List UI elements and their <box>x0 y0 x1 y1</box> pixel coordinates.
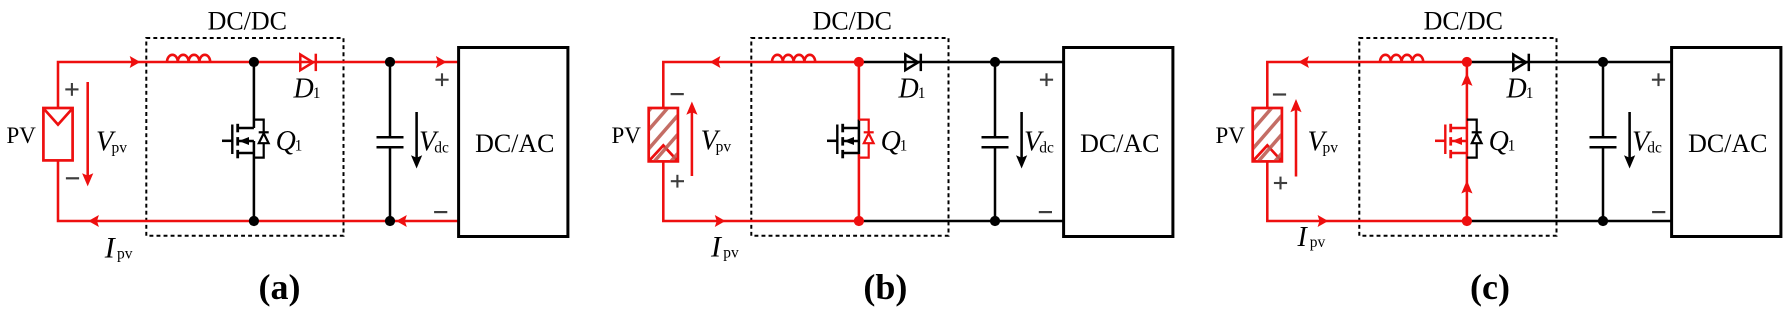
Q1 body arrowhead (a) <box>239 137 249 145</box>
Q1 source connection (c) <box>1451 152 1467 155</box>
wire: bottom rail PV lead to Q1 node (b), red <box>663 162 859 222</box>
svg-text:1: 1 <box>918 85 926 102</box>
svg-text:pv: pv <box>723 245 739 262</box>
Q1 gate lead (b) <box>827 140 837 143</box>
junction node Q1 top (a) <box>249 57 259 67</box>
svg-text:dc: dc <box>1647 140 1662 157</box>
svg-text:Q: Q <box>881 126 901 157</box>
current arrow top rail pointing left toward PV (c) <box>1298 56 1309 68</box>
Vpv arrow pointing up (c) <box>1295 108 1298 177</box>
wire: top rail PV lead to Q1 node (b), red <box>663 62 859 107</box>
Vdc arrow pointing down (c) <box>1628 112 1631 158</box>
minus sign at DC/AC input (b) <box>1039 211 1052 213</box>
plus sign at DC/AC input (a) <box>435 73 448 86</box>
transistor Q1 MOSFET (a): drain lead <box>253 62 256 128</box>
svg-text:D: D <box>898 74 919 105</box>
capacitor C (c) <box>1590 62 1617 221</box>
plus sign at PV bottom (b) <box>671 175 684 188</box>
wire: top rail PV lead to Q1 node (c), red <box>1267 62 1467 107</box>
transistor Q1 MOSFET (b): drain lead <box>858 62 861 121</box>
svg-text:Q: Q <box>1489 126 1509 157</box>
svg-text:DC/DC: DC/DC <box>208 7 287 36</box>
diode D1 (c) <box>1513 54 1529 71</box>
svg-text:1: 1 <box>900 137 908 154</box>
DC/DC converter dashed box (b) <box>751 38 948 236</box>
Q1 source connection (b) <box>843 152 859 155</box>
Q1 gate bar (c) <box>1444 125 1446 155</box>
junction node Q1 top (c) <box>1462 57 1472 67</box>
Q1 gate bar (a) <box>231 125 233 155</box>
Q1 drain connection (a) <box>238 127 254 130</box>
svg-text:pv: pv <box>1323 140 1339 157</box>
Q1 gate lead (a) <box>222 140 232 143</box>
svg-text:pv: pv <box>117 246 133 263</box>
current arrow bottom rail pointing left near PV (a) <box>88 215 99 227</box>
junction node C top (c) <box>1598 57 1608 67</box>
Q1 body arrow line (a) <box>238 140 254 143</box>
current arrow upward below Q1 (c) <box>1461 180 1472 193</box>
minus sign at DC/AC input (a) <box>434 211 447 213</box>
wire: bottom rail PV lead to DC/AC (a), red <box>58 162 459 222</box>
svg-text:(a): (a) <box>259 267 301 307</box>
Q1 source lead (a) <box>253 141 256 221</box>
junction node C top (a) <box>385 57 395 67</box>
Q1 gate bar (b) <box>836 125 838 155</box>
Q1 drain connection (b) <box>843 127 859 130</box>
svg-text:1: 1 <box>313 85 321 102</box>
diode D1 (b) <box>905 54 921 71</box>
svg-text:DC/DC: DC/DC <box>1424 7 1503 36</box>
svg-text:PV: PV <box>7 123 37 148</box>
minus sign at DC/AC input (c) <box>1652 211 1665 213</box>
svg-text:DC/AC: DC/AC <box>475 129 554 158</box>
PV panel symbol (a) <box>43 108 72 160</box>
junction node Q1 bottom (a) <box>249 216 259 226</box>
svg-text:pv: pv <box>716 139 732 156</box>
minus sign at PV bottom (a) <box>66 177 79 179</box>
svg-text:pv: pv <box>1310 234 1326 251</box>
Q1 source connection (a) <box>238 152 254 155</box>
Q1 channel bar segments (c) <box>1449 124 1452 159</box>
diode D1 (a) <box>300 54 316 71</box>
DC/AC inverter block (b) <box>1064 48 1173 237</box>
junction node Q1 top (b) <box>854 57 864 67</box>
junction node C bottom (c) <box>1598 216 1608 226</box>
Vpv arrow pointing up (b) <box>691 111 694 177</box>
Vdc arrow pointing down (a) <box>415 112 418 158</box>
Q1 body diode branch (a) <box>254 120 269 158</box>
inductor L (c) <box>1380 55 1423 62</box>
inductor L (a) <box>167 55 210 62</box>
PV panel symbol (b) <box>649 108 678 161</box>
plus sign at PV bottom (c) <box>1274 177 1287 190</box>
svg-text:DC/AC: DC/AC <box>1688 129 1767 158</box>
svg-text:D: D <box>293 74 314 105</box>
minus sign at PV top (c) <box>1273 93 1286 95</box>
junction node C top (b) <box>990 57 1000 67</box>
plus sign at DC/AC input (c) <box>1652 73 1665 86</box>
svg-text:1: 1 <box>295 137 303 154</box>
svg-text:pv: pv <box>112 140 128 157</box>
Q1 body arrow line (c) <box>1451 140 1467 143</box>
Q1 body arrowhead (b) <box>844 137 854 145</box>
svg-text:1: 1 <box>1526 85 1534 102</box>
inductor L (b) <box>772 55 815 62</box>
Q1 mid vertical bracket (b) <box>858 120 861 154</box>
wire: bottom rail Q1 node to DC/AC (b), black <box>859 220 1064 223</box>
svg-text:PV: PV <box>612 123 642 148</box>
current arrow upward below top node (c) <box>1461 73 1472 86</box>
svg-text:Q: Q <box>276 126 296 157</box>
Q1 body arrowhead (c) <box>1452 137 1462 145</box>
current arrow top rail pointing left toward PV (b) <box>710 56 721 68</box>
Vpv arrow pointing down (a) <box>86 82 89 176</box>
DC/AC inverter block (c) <box>1672 48 1781 237</box>
wire: top rail Q1 node to DC/AC (b), black <box>859 61 1064 64</box>
wire: top rail Q1 node to DC/AC (c), black <box>1467 61 1672 64</box>
svg-text:dc: dc <box>434 140 449 157</box>
Q1 drain connection (c) <box>1451 127 1467 130</box>
plus sign at DC/AC input (b) <box>1040 73 1053 86</box>
wire: bottom rail Q1 node to DC/AC (c), black <box>1467 220 1672 223</box>
Q1 body diode branch (c) <box>1467 120 1482 158</box>
svg-text:I: I <box>1297 222 1309 253</box>
svg-text:D: D <box>1506 74 1527 105</box>
DC/DC converter dashed box (c) <box>1359 38 1556 236</box>
Q1 body arrow line (b) <box>843 140 859 143</box>
Q1 gate lead (c) <box>1435 140 1445 143</box>
capacitor C (b) <box>982 62 1009 221</box>
transistor Q1 MOSFET (c): drain-source vertical <box>1466 62 1469 221</box>
plus sign at PV top (a) <box>65 83 78 96</box>
svg-text:(c): (c) <box>1470 267 1510 307</box>
junction node Q1 bottom (b) <box>854 216 864 226</box>
Vdc arrow pointing down (b) <box>1020 112 1023 158</box>
wire: bottom rail PV lead to Q1 node (c), red <box>1267 162 1467 222</box>
svg-text:(b): (b) <box>863 267 907 307</box>
junction node C bottom (b) <box>990 216 1000 226</box>
Q1 source lead (b) <box>858 154 861 221</box>
junction node C bottom (a) <box>385 216 395 226</box>
svg-text:dc: dc <box>1039 140 1054 157</box>
current arrow bottom rail pointing right toward Q1 (b) <box>715 215 726 227</box>
current arrow top rail pointing right (a) <box>130 56 141 68</box>
svg-text:PV: PV <box>1216 123 1246 148</box>
junction node Q1 bottom (c) <box>1462 216 1472 226</box>
DC/DC converter dashed box (a) <box>146 38 343 236</box>
svg-text:DC/AC: DC/AC <box>1080 129 1159 158</box>
capacitor C (a) <box>377 62 404 221</box>
PV panel symbol (c) <box>1253 108 1282 161</box>
current arrow bottom rail pointing right toward Q1 (c) <box>1318 215 1329 227</box>
current arrow top rail into DC/AC (a) <box>436 56 447 68</box>
minus sign at PV top (b) <box>671 93 684 95</box>
current arrow bottom rail pointing left near C (a) <box>396 215 407 227</box>
wire: top rail PV lead to DC/AC (a), red <box>58 62 459 107</box>
DC/AC inverter block (a) <box>459 48 568 237</box>
svg-text:DC/DC: DC/DC <box>813 7 892 36</box>
svg-text:1: 1 <box>1508 137 1516 154</box>
Q1 channel bar segments (b) <box>841 124 844 159</box>
Q1 body diode branch (b) <box>859 120 874 158</box>
Q1 channel bar segments (a) <box>236 124 239 159</box>
